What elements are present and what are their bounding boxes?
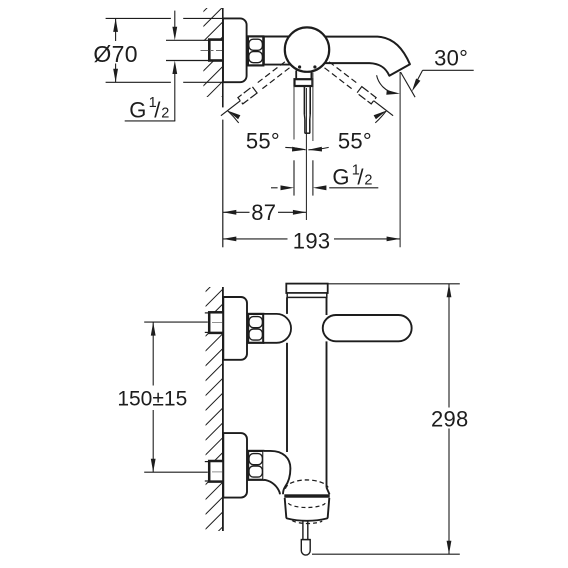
hatch gap at supply pipe xyxy=(202,41,223,60)
faucet body (front view) xyxy=(286,297,288,314)
30° leader xyxy=(423,69,474,71)
escutcheon (side view) xyxy=(223,18,247,82)
svg-text:150±15: 150±15 xyxy=(117,387,187,410)
svg-text:/: / xyxy=(154,97,161,122)
150 dimension line xyxy=(152,322,154,385)
55° arc right xyxy=(375,111,386,123)
svg-text:2: 2 xyxy=(161,105,169,121)
outlet knob xyxy=(301,540,310,555)
upper pipe stub xyxy=(205,312,210,314)
G1/2 dimension line upper xyxy=(174,11,176,28)
150 extension line lower xyxy=(144,471,208,473)
spout tip extension line xyxy=(399,72,401,247)
lower union nut xyxy=(248,451,263,480)
298 dimension line xyxy=(448,284,450,408)
150 extension line upper xyxy=(144,321,208,323)
298 extension line top xyxy=(328,283,460,285)
control knob circle xyxy=(285,27,329,71)
cup flare right xyxy=(327,488,330,495)
svg-text:193: 193 xyxy=(293,228,331,253)
svg-text:55°: 55° xyxy=(338,128,372,153)
upper valve housing xyxy=(263,314,291,343)
87 dimension line xyxy=(223,211,250,213)
svg-text:55°: 55° xyxy=(246,128,280,153)
G1/2 extension lines (outlet) xyxy=(293,160,295,195)
svg-text:298: 298 xyxy=(431,406,469,431)
knob pivot dots xyxy=(298,65,301,68)
svg-text:G: G xyxy=(129,97,146,122)
faucet body (side view) xyxy=(264,36,295,38)
cup rim band xyxy=(284,494,329,498)
lever swing position left (dashed) xyxy=(260,68,289,91)
supply pipe outline xyxy=(166,39,210,41)
G1/2 dimension line lower xyxy=(174,74,176,121)
Ø70 dimension line xyxy=(115,18,117,41)
svg-text:87: 87 xyxy=(251,200,276,225)
lever swing position right (dashed) xyxy=(329,62,358,85)
supply pipe centerline xyxy=(201,49,223,51)
55° arc left xyxy=(228,111,239,123)
193 dimension line xyxy=(223,238,288,240)
svg-text:30°: 30° xyxy=(434,45,468,70)
upper union nut xyxy=(248,314,263,343)
wall line (side view) xyxy=(222,8,224,107)
union nut (side view) xyxy=(248,36,263,65)
lever swing envelope lines xyxy=(293,86,295,140)
cup body xyxy=(285,498,330,521)
lever arm (front view) xyxy=(323,315,412,341)
svg-text:Ø70: Ø70 xyxy=(93,41,137,67)
centre extension line xyxy=(305,88,307,220)
spout xyxy=(323,37,410,76)
30° reference line xyxy=(401,72,416,97)
30° arc arrow xyxy=(377,75,395,93)
cup inner hidden edge (dashed) xyxy=(288,503,325,507)
svg-text:2: 2 xyxy=(364,173,372,189)
cap band xyxy=(287,293,327,297)
lower elbow outline xyxy=(263,451,290,494)
upper escutcheon xyxy=(223,297,247,360)
lower pipe fitting xyxy=(209,461,223,482)
cup bottom hidden edge (dashed) xyxy=(292,521,322,524)
lower pipe centerline xyxy=(212,471,222,473)
298 extension line bottom xyxy=(312,553,460,555)
G1/2 leader underline xyxy=(125,120,176,122)
Ø70 extension line bottom xyxy=(106,81,171,83)
lower pipe stub xyxy=(205,461,210,463)
cup hidden edge (dashed) xyxy=(285,480,328,489)
lower escutcheon xyxy=(223,433,247,498)
G1/2 arrows (outlet) xyxy=(271,187,278,189)
lower elbow fill xyxy=(263,451,290,494)
Ø70 extension line top xyxy=(106,17,171,19)
svg-text:/: / xyxy=(357,165,364,190)
upper pipe centerline xyxy=(212,321,222,323)
cap top xyxy=(286,284,327,293)
lever handle (neutral) xyxy=(295,71,297,80)
upper pipe fitting xyxy=(209,312,223,333)
outlet stem xyxy=(302,521,304,540)
wall line (front view) xyxy=(222,287,224,531)
hatch gaps at unions xyxy=(204,312,223,333)
svg-text:G: G xyxy=(332,165,349,190)
supply pipe end fitting xyxy=(209,40,223,61)
